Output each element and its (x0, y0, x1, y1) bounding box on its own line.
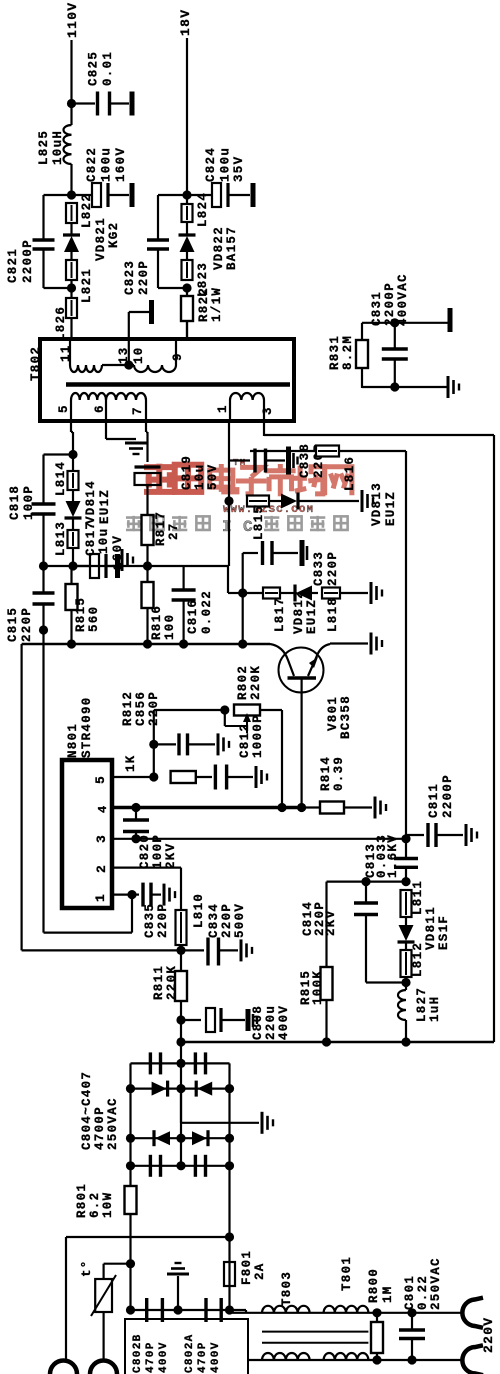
bead L824 (186, 204, 188, 222)
capacitor C812 1000P (196, 776, 212, 778)
wire pin6 down to ground (105, 421, 107, 439)
wire primary bus 644 (22, 643, 270, 646)
svg-text:250VAC: 250VAC (429, 1257, 443, 1310)
wire C833 branch vertical (242, 553, 244, 644)
ground chassis bar at pin 13/10 (149, 300, 154, 324)
svg-text:5: 5 (93, 775, 108, 784)
capacitor C825 (72, 102, 96, 104)
svg-text:3: 3 (94, 834, 109, 843)
wire C833 branch top (243, 552, 258, 554)
wire pin3 line (112, 838, 406, 840)
capacitor C817 10u 160V electrolytic (90, 554, 99, 578)
thermistor t deg (104, 1263, 131, 1265)
inductor L825 10uH (64, 125, 72, 164)
svg-text:C: C (243, 518, 254, 536)
bead L814 (72, 471, 74, 490)
svg-text:C802B: C802B (132, 1333, 144, 1373)
resistor R831 8.2M parallel C831 2200P 400VAC (362, 322, 448, 324)
bead L811 (405, 890, 407, 917)
capacitor C816 0.022 (172, 588, 196, 591)
wire node up to R802 (153, 710, 155, 777)
wire bridge center rail (180, 1063, 182, 1165)
diode bridge D4 pointing right (192, 1131, 207, 1145)
svg-text:1000P: 1000P (251, 714, 265, 758)
node junction C813/C814 row (401, 877, 410, 886)
svg-text:C817: C817 (84, 521, 98, 556)
svg-text:VD822: VD822 (212, 226, 226, 270)
svg-text:220u: 220u (264, 1005, 278, 1040)
filter core lines (262, 1331, 368, 1333)
earth ground for bridge (261, 1112, 264, 1134)
svg-text:1uH: 1uH (428, 996, 442, 1022)
transistor V801 BC358 (279, 648, 324, 693)
capacitor C814 220P 2KV (365, 882, 367, 902)
svg-text:220K: 220K (165, 965, 179, 1000)
svg-text:220P: 220P (156, 903, 170, 938)
wire secondary 566 run (44, 565, 91, 567)
svg-text:220V: 220V (481, 1317, 496, 1353)
svg-text:10W: 10W (101, 1192, 115, 1218)
earth ground for C856 (217, 733, 220, 755)
wire C816 branch (183, 566, 185, 589)
capacitor C813 0.033 1.6KV in series (394, 857, 418, 860)
node junction C818/C815/wire566 (39, 561, 48, 570)
earth ticks for C838 (292, 453, 295, 468)
svg-text:L814: L814 (54, 461, 68, 496)
svg-text:R802: R802 (236, 665, 250, 700)
node junction rail start (176, 1037, 185, 1046)
resistor R814 0.39 (302, 806, 320, 808)
ground chassis bar for C833 (300, 540, 305, 566)
wire 18V rail (186, 38, 188, 205)
svg-text:0.01: 0.01 (101, 51, 115, 86)
svg-text:VD814: VD814 (84, 480, 98, 524)
svg-text:N801: N801 (66, 723, 80, 758)
wire bridge row D (131, 1165, 230, 1167)
svg-text:100K: 100K (311, 970, 325, 1005)
wire pin3 of T802 to right rail (263, 421, 265, 436)
svg-text:L821: L821 (80, 268, 94, 303)
plug connector mains L (462, 1300, 474, 1327)
bead L816 (316, 450, 339, 452)
node junction C815 bottom (39, 625, 48, 634)
wire pin7 down (145, 421, 147, 432)
svg-text:11: 11 (59, 344, 73, 362)
svg-text:C802A: C802A (184, 1333, 196, 1373)
earth ground X-cap midpoint (167, 1273, 189, 1276)
filter T801 bottom coil (324, 1353, 369, 1360)
svg-text:EU1Z: EU1Z (98, 489, 112, 524)
capacitor C802A (204, 1298, 207, 1322)
wire pin1 down (228, 421, 230, 566)
watermark slogan row (126, 458, 352, 536)
svg-text:R800: R800 (367, 1268, 381, 1303)
capacitor C811 2200P (406, 834, 424, 836)
svg-text:1K: 1K (124, 754, 138, 772)
wire bridge right rail to fuse (228, 1166, 230, 1262)
svg-text:250VAC: 250VAC (106, 1097, 120, 1150)
T802 secondary winding pin11-13 (69, 339, 71, 365)
svg-text:WWW.DZSC.COM: WWW.DZSC.COM (223, 504, 314, 516)
svg-text:L817: L817 (273, 597, 287, 632)
capacitor C802B (145, 1298, 148, 1322)
filter T803 top coil (262, 1306, 310, 1313)
svg-text:100u: 100u (100, 147, 114, 182)
svg-text:C801: C801 (403, 1275, 417, 1310)
svg-text:BC358: BC358 (339, 695, 353, 739)
svg-text:C811: C811 (427, 783, 441, 818)
node junctions row C (126, 1134, 135, 1143)
filter T801 top coil (324, 1306, 369, 1313)
wire L816 line (250, 450, 406, 452)
svg-text:C856: C856 (134, 691, 148, 726)
node junction bridge row A (176, 1059, 185, 1068)
wire V801 base down to pin4 bus (301, 678, 303, 808)
svg-text:470P: 470P (197, 1341, 209, 1373)
plug connector degauss left (50, 1361, 77, 1374)
svg-text:L826: L826 (54, 306, 68, 341)
svg-text:EU1Z: EU1Z (305, 599, 319, 634)
svg-text:7: 7 (131, 406, 145, 415)
node junction L817 tap (238, 588, 247, 597)
bead L813 (72, 518, 74, 530)
wire L826 to T802 pin 11 (70, 318, 72, 340)
svg-text:110V: 110V (65, 2, 80, 38)
node junction thermistor tap (126, 1259, 135, 1268)
svg-text:400V: 400V (158, 1341, 170, 1373)
svg-text:2A: 2A (253, 1262, 267, 1280)
wire left rail L2 from C815 (42, 630, 44, 933)
wire X-cap midpoint to ground (177, 1276, 179, 1310)
resistor R812 1K (171, 771, 196, 783)
svg-text:220P: 220P (147, 691, 161, 726)
earth ground for C812 (255, 766, 258, 788)
svg-text:4700P: 4700P (93, 1106, 107, 1150)
node junction C820/pin3 (131, 834, 140, 843)
svg-text:6: 6 (93, 404, 107, 413)
node junction L812/C814 (401, 978, 410, 987)
capacitor C821 2200P parallel branch (44, 194, 72, 196)
diode VD812 EU1Z pointing left (280, 592, 296, 594)
wire bridge row A (131, 1062, 230, 1064)
node junction pin1/L815 chain (224, 496, 233, 505)
node junction 18V/C824/L824 (182, 190, 191, 199)
svg-text:2200P: 2200P (21, 239, 35, 283)
resistor R800 1M (376, 1313, 378, 1322)
svg-text:500V: 500V (233, 903, 247, 938)
node junction fuse top (225, 1232, 234, 1241)
resistor R815 100K (325, 882, 327, 967)
wire 593 to pin1 line (228, 592, 243, 594)
wire 566 run to pin1 line (73, 565, 229, 567)
ground chassis bar for C825 (130, 92, 135, 116)
node junction R817/R816/wire566 (143, 561, 152, 570)
earth ground for L818 (370, 582, 373, 604)
bead L817 (243, 592, 263, 594)
svg-text:10u: 10u (97, 528, 111, 554)
svg-text:160V: 160V (114, 147, 128, 182)
svg-text:R801: R801 (75, 1183, 89, 1218)
svg-text:2: 2 (94, 864, 109, 873)
capacitor C820 100P 2KV (135, 808, 137, 820)
earth ground for C817 (121, 549, 124, 571)
wire left rail L1 from bus (21, 644, 23, 950)
svg-text:VD813: VD813 (370, 482, 384, 526)
svg-text:C815: C815 (6, 607, 20, 642)
svg-text:R816: R816 (150, 605, 164, 640)
node junction pin1 (127, 890, 136, 899)
wire pin13/10 to chassis ground (128, 312, 130, 339)
diode VD813 EU1Z pointing right (269, 500, 283, 502)
bead L815 (247, 500, 269, 502)
svg-text:C823: C823 (123, 260, 137, 295)
IC N801 STR4090 box (62, 760, 112, 908)
bead L822 (71, 203, 73, 223)
node junction L810/wire950 (176, 946, 185, 955)
earth ground for C835 (163, 884, 166, 906)
ground chassis bar for C838 (286, 447, 291, 475)
resistor R816 100 (146, 566, 148, 582)
svg-text:0.022: 0.022 (200, 590, 214, 634)
capacitor C835 220P (141, 883, 144, 907)
T802 primary winding pin1-3 (229, 400, 231, 421)
wire pin2 rail to main rail (180, 1020, 182, 1043)
node junction R815-560 bottom on bus (67, 639, 76, 648)
earth ground for V801 emitter (370, 633, 373, 655)
svg-text:I: I (222, 518, 233, 536)
svg-text:R822: R822 (197, 287, 211, 322)
svg-text:0.22: 0.22 (416, 1275, 430, 1310)
wire main DC rail (181, 1041, 494, 1044)
node junction bus/C833 line (238, 639, 247, 648)
svg-text:560: 560 (87, 606, 101, 632)
node junction 110V/C825 (67, 99, 76, 108)
bead L821 (71, 260, 73, 280)
node junction pin3/C811 on boundary (401, 834, 410, 843)
svg-text:400V: 400V (210, 1341, 222, 1373)
svg-text:1: 1 (93, 893, 108, 902)
svg-text:BA157: BA157 (225, 226, 239, 270)
capacitor C819 10u 50V electrolytic (135, 473, 161, 485)
svg-text:C821: C821 (6, 248, 20, 283)
svg-text:R815: R815 (74, 597, 88, 632)
resistor R817 27 (142, 515, 154, 545)
svg-text:2200P: 2200P (441, 774, 455, 818)
capacitor C801 0.22 250VAC (411, 1313, 413, 1329)
svg-text:EU1Z: EU1Z (384, 491, 398, 526)
capacitor C808 220u 400V electrolytic (181, 1019, 201, 1021)
capacitor C838 220P (253, 449, 256, 473)
svg-text:C831: C831 (370, 291, 384, 326)
node tap 13/10 (124, 360, 133, 369)
svg-text:R811: R811 (152, 965, 166, 1000)
node junction C816 on bus (179, 639, 188, 648)
svg-text:C822: C822 (85, 147, 99, 182)
wire pin5 stub (112, 776, 154, 778)
svg-text:1/1W: 1/1W (210, 287, 224, 322)
diode VD822 BA157 (186, 222, 188, 236)
svg-text:220P: 220P (326, 551, 340, 586)
capacitor C823 220P parallel branch (158, 194, 187, 196)
snubber cap row A right (194, 1052, 197, 1074)
R802 wiper arrow (246, 719, 248, 733)
transformer T802 box (40, 339, 294, 421)
svg-text:C835: C835 (143, 903, 157, 938)
svg-text:220P: 220P (220, 903, 234, 938)
node junction L823/C823 (182, 283, 191, 292)
node junction pin4/C820 (131, 803, 140, 812)
svg-text:C804~C407: C804~C407 (80, 1071, 94, 1150)
svg-text:2KV: 2KV (164, 843, 178, 869)
bead L823 (186, 260, 188, 280)
capacitor C822 100u 160V electrolytic (72, 194, 93, 196)
wire V801 emitter to earth (308, 644, 330, 676)
svg-text:C816: C816 (186, 599, 200, 634)
capacitor C833 220P (261, 541, 264, 565)
svg-text:L818: L818 (326, 597, 340, 632)
svg-text:220K: 220K (249, 665, 263, 700)
node junction R815 on rail (322, 1037, 331, 1046)
earth ground for VD813 (361, 490, 364, 512)
svg-text:18V: 18V (178, 9, 193, 36)
earth ground at pin6 (125, 442, 147, 445)
svg-text:VD811: VD811 (424, 906, 438, 950)
plug connector degauss right (90, 1361, 117, 1374)
bead L810 (180, 910, 182, 945)
capacitor C818 100P parallel (44, 453, 74, 455)
svg-text:6.2: 6.2 (88, 1192, 102, 1218)
node junction R811/C808 (176, 1015, 185, 1024)
wire L810 to junction (180, 868, 182, 910)
diode bridge D1 pointing right (152, 1082, 167, 1096)
capacitor C856 220P (154, 743, 176, 745)
bead L812 (405, 950, 407, 977)
svg-text:L822: L822 (80, 193, 94, 228)
wire R802 right down to pin4 bus (281, 710, 283, 808)
ground chassis bar for C822 (130, 183, 135, 207)
snubber cap row D left (149, 1155, 152, 1177)
svg-text:100u: 100u (219, 147, 233, 182)
wire inner boundary right edge down (405, 451, 407, 836)
svg-text:STR4090: STR4090 (80, 696, 94, 758)
svg-text:L813: L813 (54, 521, 68, 556)
svg-text:0.39: 0.39 (332, 756, 346, 791)
svg-text:V801: V801 (326, 696, 340, 731)
wire bridge center top (180, 1042, 182, 1063)
svg-text:ES1F: ES1F (437, 915, 451, 950)
T802 core (66, 382, 290, 387)
node junction L813 bottom (68, 561, 77, 570)
resistor R815 560 (70, 566, 72, 584)
snubber cap row A left (149, 1052, 152, 1074)
node junctions row B (126, 1084, 135, 1093)
capacitor C834 220P 500V (181, 949, 204, 951)
fuse F801 2A (224, 1262, 235, 1286)
svg-text:C834: C834 (207, 903, 221, 938)
node junction L821/C821/L826 (70, 280, 72, 298)
ground chassis bar for C808 (246, 1009, 251, 1031)
svg-text:R831: R831 (328, 335, 342, 370)
svg-text:1.6KV: 1.6KV (386, 834, 400, 878)
earth ground for C831 (447, 376, 450, 398)
wire pin5 down (70, 421, 72, 432)
wire mains bottom line (249, 1359, 462, 1361)
svg-text:100P: 100P (22, 485, 36, 520)
svg-text:8.2M: 8.2M (341, 335, 355, 370)
svg-text:T802: T802 (29, 346, 43, 381)
node junction C856 tap (149, 740, 158, 749)
node junction R802 on pin4 bus (277, 803, 286, 812)
svg-text:C808: C808 (251, 1005, 265, 1040)
svg-text:220P: 220P (137, 260, 151, 295)
svg-text:L810: L810 (192, 893, 206, 928)
T802 primary winding pin5-6 (70, 400, 72, 421)
resistor R811 220K (180, 950, 182, 970)
svg-text:L825: L825 (37, 130, 51, 165)
svg-text:1: 1 (216, 404, 230, 413)
svg-text:3: 3 (261, 406, 275, 415)
filter T803 bottom coil (262, 1353, 310, 1360)
svg-text:2200P: 2200P (383, 282, 397, 326)
diode bridge D3 pointing left (155, 1131, 170, 1145)
svg-text:F801: F801 (240, 1250, 254, 1285)
svg-text:400V: 400V (277, 1005, 291, 1040)
wire 881.6 run left (327, 880, 407, 882)
svg-text:T803: T803 (280, 1271, 294, 1306)
svg-text:L812: L812 (411, 942, 425, 977)
ground chassis bar for C817 (115, 554, 120, 578)
svg-text:13: 13 (117, 346, 131, 364)
node junction V801 base on pin4 bus (297, 803, 306, 812)
svg-text:100: 100 (163, 614, 177, 640)
node junction C822/C821/L822 (67, 190, 76, 199)
svg-text:C833: C833 (312, 551, 326, 586)
svg-text:L824: L824 (196, 192, 210, 227)
T802 secondary winding 10-9 (134, 365, 176, 372)
wire bridge right rail (228, 1063, 230, 1165)
wire pin1 stub (112, 893, 132, 895)
ground chassis bar for C824 (251, 183, 256, 207)
svg-text:R812: R812 (121, 691, 135, 726)
inductor L827 1uH (405, 977, 407, 990)
diode bridge D2 pointing left (197, 1082, 212, 1096)
node junctions row D (126, 1161, 135, 1170)
svg-text:160V: 160V (111, 535, 125, 570)
svg-text:C825: C825 (87, 51, 101, 86)
snubber cap row D right (194, 1155, 197, 1177)
plug connector mains N (462, 1347, 474, 1374)
svg-text:10: 10 (132, 346, 146, 364)
preset R802 220K (154, 709, 225, 711)
wire bridge left rail (129, 1063, 131, 1165)
earth ground for C811 (465, 824, 468, 846)
svg-text:470P: 470P (145, 1341, 157, 1373)
capacitor C815 220P (42, 566, 44, 592)
wire V801 collector from bus (270, 644, 294, 676)
node junction C814 tap (361, 877, 370, 886)
svg-text:1M: 1M (381, 1285, 395, 1303)
svg-text:35V: 35V (232, 156, 246, 182)
diode VD814 EU1Z pointing down (72, 490, 74, 501)
svg-text:VD821: VD821 (94, 217, 108, 261)
svg-text:VD812: VD812 (292, 590, 306, 634)
resistor R801 6.2 10W (129, 1166, 131, 1186)
wire bridge row B (131, 1087, 230, 1089)
node junction pin5 node (149, 772, 158, 781)
wire pin2 stub (112, 866, 181, 868)
svg-text:C824: C824 (204, 147, 218, 182)
wire bridge minus to earth (180, 1089, 182, 1123)
